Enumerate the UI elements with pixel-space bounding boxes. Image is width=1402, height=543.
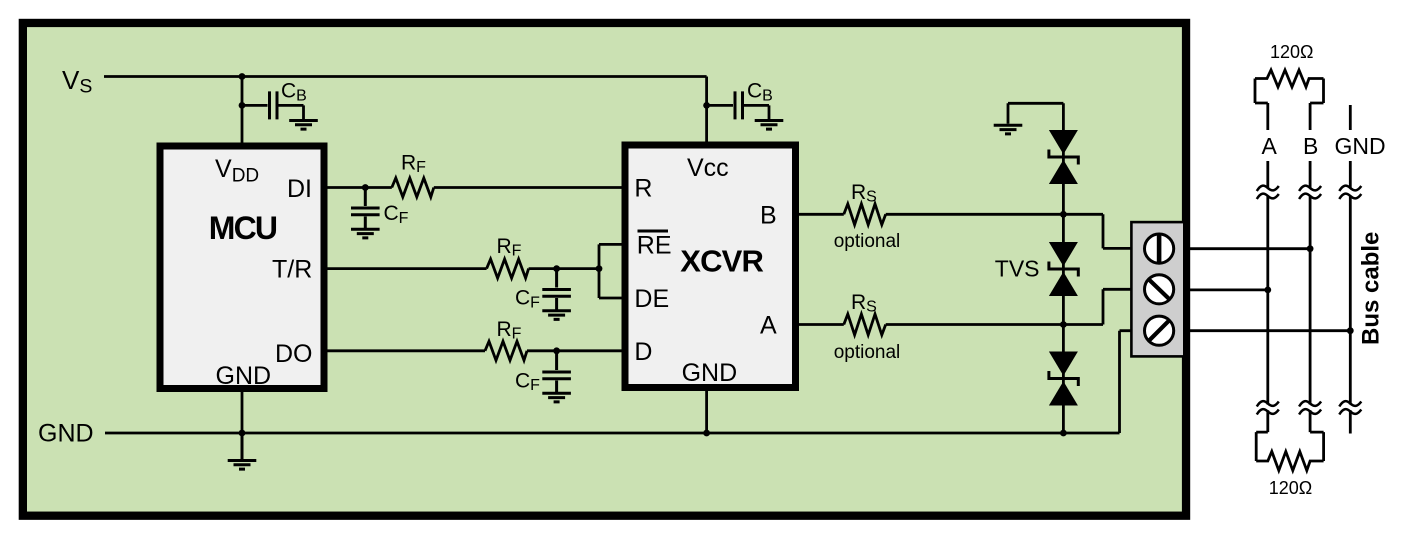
- resistor RF (T/R): [487, 259, 529, 278]
- XCVR U2 block: [625, 145, 796, 388]
- wire CB2 branch: [707, 105, 769, 119]
- junction VS-MCU tee: [239, 73, 246, 80]
- wire TVS top hook: [1008, 103, 1063, 124]
- TVS diode pair D2: [1049, 242, 1078, 296]
- resistor RF (DO): [485, 341, 527, 360]
- svg-text:DO: DO: [275, 340, 313, 368]
- wire T/R line: [324, 267, 599, 270]
- svg-text:DE: DE: [634, 285, 669, 313]
- break marks bus GND top: [1339, 186, 1361, 199]
- ground (CB MCU): [289, 121, 318, 130]
- svg-text:B: B: [1303, 133, 1318, 159]
- screw terminal 1: [1145, 234, 1174, 263]
- ground (CB XCVR): [755, 121, 784, 130]
- wire DI to R: [324, 186, 625, 189]
- wire RE-DE bracket: [599, 244, 628, 298]
- wire XCVR gnd drop: [705, 388, 708, 434]
- wire VS rail: [104, 75, 707, 78]
- svg-text:B: B: [760, 201, 777, 229]
- ground (CF DO): [542, 393, 571, 402]
- green background panel: [23, 23, 1186, 516]
- junction CB2 tee: [703, 102, 710, 109]
- resistor RS (A): [844, 314, 886, 335]
- ground (CF DI): [351, 229, 380, 238]
- screw terminal 3: [1145, 316, 1174, 345]
- svg-text:Vcc: Vcc: [687, 154, 729, 182]
- wire CB1 branch: [242, 105, 304, 119]
- wire bus line A (terminal 2): [1186, 288, 1268, 291]
- svg-text:optional: optional: [834, 231, 901, 252]
- junction T/R filter: [553, 265, 560, 272]
- wire bus line GND (terminal 3): [1186, 329, 1350, 332]
- wire bus GND vertical: [1349, 105, 1352, 434]
- junction MCU gnd: [239, 430, 246, 437]
- svg-text:MCU: MCU: [209, 210, 277, 246]
- resistor RF (DI): [392, 178, 434, 197]
- break marks bus B top: [1299, 186, 1321, 199]
- wire MCU supply drop: [241, 77, 244, 147]
- svg-text:A: A: [1262, 133, 1278, 159]
- svg-text:TVS: TVS: [995, 256, 1040, 282]
- svg-text:R: R: [634, 175, 652, 203]
- wire bus line B (terminal 1): [1186, 247, 1310, 250]
- junction DO filter: [553, 347, 560, 354]
- ground (TVS top): [994, 125, 1023, 134]
- svg-text:D: D: [634, 338, 652, 366]
- resistor 120ohm bottom: [1256, 452, 1323, 471]
- MCU U1 block: [160, 146, 324, 389]
- terminal block J1: [1131, 222, 1184, 356]
- svg-text:T/R: T/R: [272, 256, 312, 284]
- svg-text:A: A: [760, 312, 777, 340]
- wire DO line: [324, 349, 625, 352]
- capacitor CF (DO): [542, 351, 571, 392]
- junction XCVR gnd: [703, 430, 710, 437]
- ground (system): [228, 433, 257, 469]
- capacitor CB (MCU): [270, 91, 278, 119]
- svg-text:GND: GND: [1335, 133, 1386, 159]
- svg-text:optional: optional: [834, 342, 901, 363]
- junction RE-DE bracket: [596, 265, 603, 272]
- junction bus GND: [1347, 327, 1354, 334]
- resistor RS (B): [844, 204, 886, 225]
- junction DI filter: [362, 184, 369, 191]
- svg-text:120Ω: 120Ω: [1270, 42, 1314, 62]
- break marks bus A top: [1257, 186, 1279, 199]
- wire bottom resistor arms: [1256, 432, 1323, 461]
- junction bus B: [1307, 245, 1314, 252]
- break marks bus A bottom: [1257, 401, 1279, 414]
- svg-text:DI: DI: [287, 175, 312, 203]
- TVS diode pair D1: [1049, 130, 1078, 184]
- svg-text:120Ω: 120Ω: [1269, 478, 1313, 498]
- junction TVS-B: [1060, 211, 1067, 218]
- junction bus A: [1264, 287, 1271, 294]
- TVS diode pair D3: [1049, 352, 1078, 406]
- wire bus B vertical: [1309, 161, 1312, 432]
- wire B line: [796, 214, 1134, 248]
- wire XCVR supply drop: [705, 77, 708, 146]
- XCVR pin label RE (with overline): [638, 230, 669, 233]
- svg-text:GND: GND: [216, 362, 272, 390]
- capacitor CB (XCVR): [735, 91, 743, 119]
- break marks bus GND bottom: [1339, 401, 1361, 414]
- resistor 120ohm top: [1255, 70, 1324, 87]
- wire top resistor arms: [1255, 79, 1324, 131]
- capacitor CF (T/R): [542, 269, 571, 310]
- break marks bus B bottom: [1299, 401, 1321, 414]
- wire GND rail: [105, 331, 1133, 433]
- capacitor CF (DI): [351, 188, 380, 229]
- wire MCU gnd drop: [241, 389, 244, 434]
- junction CB1 tee: [239, 102, 246, 109]
- wire A line: [796, 289, 1134, 324]
- junction TVS-A: [1060, 321, 1067, 328]
- junction TVS-GND: [1060, 430, 1067, 437]
- svg-text:Bus cable: Bus cable: [1358, 232, 1385, 345]
- svg-text:XCVR: XCVR: [680, 244, 763, 279]
- ground (CF T/R): [542, 311, 571, 320]
- screw terminal 2: [1145, 275, 1174, 304]
- wire TVS chain vertical: [1062, 103, 1065, 433]
- wire bus A vertical: [1266, 161, 1269, 432]
- svg-text:RE: RE: [637, 231, 672, 259]
- svg-text:GND: GND: [38, 420, 94, 448]
- svg-text:GND: GND: [682, 359, 738, 387]
